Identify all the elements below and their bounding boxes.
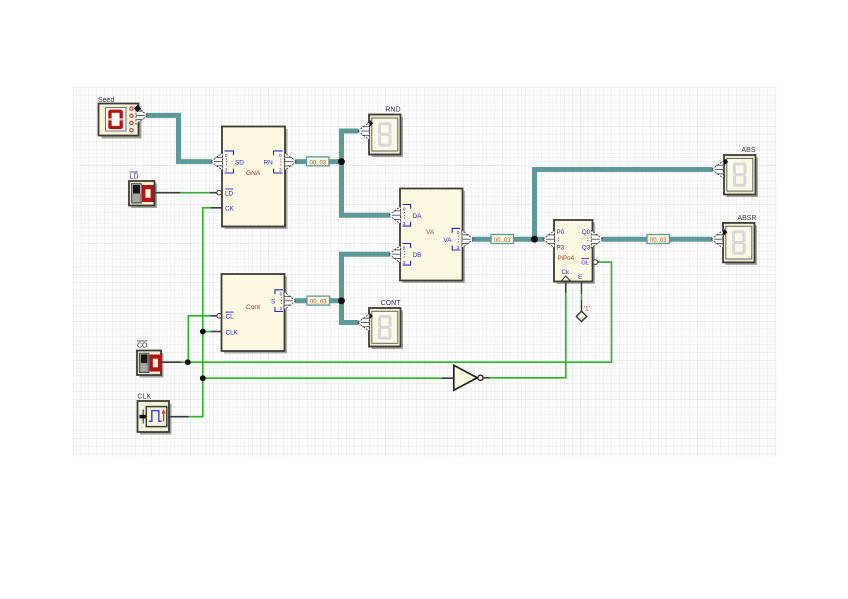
display RND [369, 115, 403, 158]
svg-text:Q0: Q0 [582, 229, 591, 236]
svg-text:P0: P0 [557, 229, 565, 236]
component CLK clock generator [138, 401, 172, 435]
svg-text:0: 0 [279, 153, 282, 159]
svg-text:Seed: Seed [98, 97, 114, 104]
junction diamond at ABS input [722, 159, 728, 165]
node CLK net junction at Cont [200, 329, 206, 335]
bus tap Seed output [136, 107, 148, 124]
bus label 00..03 on ABSR net [647, 235, 670, 244]
IC GNA pseudo-random generator [222, 127, 288, 230]
svg-text:0: 0 [403, 206, 406, 212]
svg-text:Cont: Cont [246, 304, 260, 311]
wire bus node up to ABS display [535, 170, 713, 243]
svg-text:RND: RND [385, 107, 400, 114]
svg-text:CL: CL [226, 314, 235, 321]
bus tap PIPO4 P inputs [543, 231, 555, 248]
wire bus Cont S to node [295, 298, 345, 303]
bus tap VA output [462, 231, 474, 248]
svg-text:E: E [578, 274, 582, 281]
svg-text:LD: LD [225, 191, 234, 198]
svg-text:0: 0 [280, 292, 283, 298]
bus tap VA DB [389, 246, 401, 263]
bus tap RND [358, 122, 370, 139]
svg-text:OL: OL [581, 261, 590, 267]
node bus junction S net [338, 297, 345, 304]
label LD [130, 172, 139, 181]
svg-text:P3: P3 [557, 244, 565, 251]
terminal logic 1 diamond [576, 306, 590, 322]
junction diamond at Seed output [134, 105, 141, 112]
node CO net junction [185, 359, 191, 365]
IC Cont counter [222, 274, 288, 354]
junction diamond at RND input [367, 120, 373, 126]
bus tap PIPO4 Q outputs [591, 231, 603, 248]
junction diamond at ABSR input [722, 229, 728, 235]
wire Cont CL to CO net [188, 316, 216, 362]
svg-text:Ck: Ck [562, 269, 570, 276]
svg-text:00..03: 00..03 [494, 238, 511, 244]
display ABS [724, 155, 758, 197]
svg-text:3: 3 [279, 168, 282, 174]
svg-text:PiPo4: PiPo4 [558, 255, 575, 262]
svg-text:'1': '1' [584, 306, 590, 313]
svg-text:3: 3 [225, 168, 228, 174]
wire bus VA output to PIPO4 [472, 237, 545, 242]
svg-text:DA: DA [413, 213, 423, 220]
pin bubble Cont CL [217, 314, 222, 319]
grid background [73, 87, 777, 457]
component LD logic toggle [129, 181, 157, 208]
svg-text:00..03: 00..03 [309, 160, 326, 166]
svg-text:ABS: ABS [741, 147, 755, 154]
wire bus node down to VA DA [342, 159, 391, 215]
wire CLK net to inverter input [203, 377, 454, 379]
wire bus node up to RND [342, 131, 359, 164]
svg-text:DB: DB [413, 252, 422, 259]
bus label 00..03 on GNA RN net [307, 157, 330, 166]
bus tap Cont S [284, 292, 296, 309]
display CONT [369, 308, 403, 349]
node CLK net junction at inverter branch [200, 375, 206, 381]
bus label 00..03 on VA output net [491, 235, 514, 244]
svg-text:3: 3 [280, 306, 283, 312]
svg-text:00..03: 00..03 [310, 300, 327, 306]
wire LD to GNA LD [155, 192, 217, 194]
svg-text:CONT: CONT [381, 300, 402, 307]
component Seed BCD source [99, 104, 142, 139]
svg-text:Q3: Q3 [582, 244, 591, 251]
svg-text:3: 3 [403, 221, 406, 227]
svg-text:0: 0 [403, 245, 406, 251]
wire inverter output to PIPO4 Ck [483, 281, 566, 378]
svg-text:CLK: CLK [138, 394, 152, 401]
svg-text:VA: VA [426, 229, 435, 236]
svg-text:CO: CO [137, 343, 148, 350]
bus tap VA DA [389, 207, 401, 224]
IC VA comparator [400, 189, 465, 284]
node bus junction RN net [338, 158, 345, 165]
wire Cont CLK branch [203, 331, 222, 333]
bus tap GNA RN [285, 153, 297, 170]
bus tap CONT [358, 314, 370, 331]
svg-text:GNA: GNA [246, 170, 261, 177]
label CO [137, 341, 148, 350]
IC PIPO4 register [554, 220, 595, 284]
wire GNA CK to CLK net [169, 208, 222, 417]
bus tap GNA SD [211, 153, 223, 170]
wire bus node up to VA DB [342, 254, 391, 303]
svg-text:3: 3 [457, 245, 460, 251]
display ABSR [723, 223, 757, 265]
svg-text:S: S [271, 298, 275, 305]
component CO logic toggle [137, 351, 164, 378]
node bus junction VA output net [531, 236, 538, 243]
svg-text:LD: LD [130, 174, 139, 181]
wire bus Seed to GNA SD [146, 115, 212, 161]
wire bus GNA RN to node [295, 159, 344, 164]
svg-text:CLK: CLK [226, 329, 239, 336]
wire CO to PIPO4 OL [161, 262, 612, 362]
pin bubble GNA LD [217, 190, 222, 195]
bus tap ABSR [711, 231, 723, 248]
pin bubble PIPO4 OL [593, 260, 598, 265]
wire bus PIPO4 Q to ABSR display [602, 237, 713, 242]
svg-text:VA: VA [443, 237, 452, 244]
svg-text:CK: CK [225, 206, 235, 213]
bus tap ABS [712, 161, 724, 178]
svg-text:RN: RN [264, 159, 274, 166]
wire PIPO4 E to logic-1 terminal [581, 281, 583, 312]
svg-text:ABSR: ABSR [737, 215, 756, 222]
svg-text:SD: SD [235, 159, 244, 166]
svg-text:0: 0 [225, 153, 228, 159]
gate inverter [454, 365, 483, 390]
bus label 00..03 on Cont S net [307, 296, 330, 305]
svg-text:00..03: 00..03 [650, 238, 667, 244]
junction diamond at CONT input [367, 313, 373, 319]
svg-text:3: 3 [403, 260, 406, 266]
wire bus node down to CONT display [342, 298, 359, 323]
svg-text:0: 0 [457, 230, 460, 236]
